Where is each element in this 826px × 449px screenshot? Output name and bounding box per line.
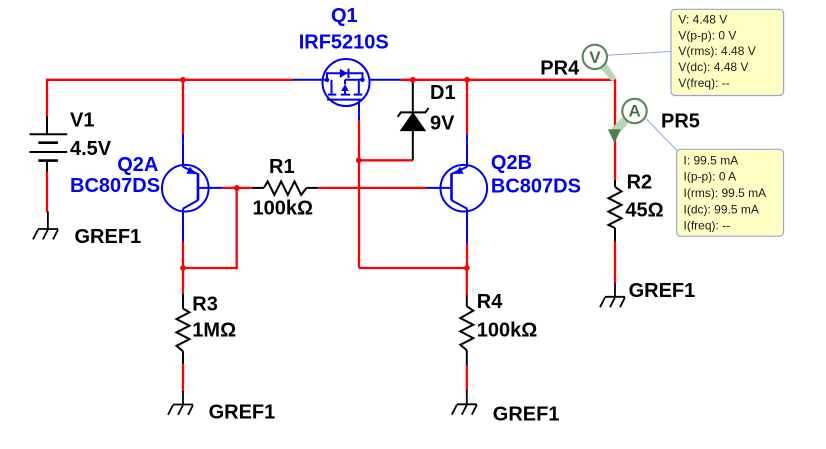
svg-text:R2: R2 (627, 172, 653, 194)
svg-text:IRF5210S: IRF5210S (299, 31, 389, 53)
wire base-collector loop of Q2A (183, 188, 237, 268)
wire Q2A base to R1 (222, 187, 252, 189)
wire R3 bottom (182, 364, 184, 392)
resistor R4 (460, 295, 473, 365)
svg-text:I(dc): 99.5 mA: I(dc): 99.5 mA (684, 202, 759, 216)
svg-text:I(p-p): 0 A: I(p-p): 0 A (684, 170, 737, 184)
svg-text:100kΩ: 100kΩ (477, 319, 538, 341)
wire gate node to R4 junction (359, 267, 467, 269)
svg-text:I(freq): --: I(freq): -- (684, 219, 731, 233)
svg-text:Q2A: Q2A (117, 154, 158, 176)
resistor R1 (252, 181, 317, 195)
battery V1 (30, 117, 68, 172)
svg-text:Q1: Q1 (331, 5, 358, 27)
svg-text:4.5V: 4.5V (70, 138, 112, 160)
wire R3 top (182, 268, 184, 294)
wire R4 bottom (466, 365, 468, 390)
svg-text:V(freq): --: V(freq): -- (678, 76, 729, 90)
wire Q2B emitter drop (466, 80, 468, 135)
wire R1 right to Q2B base (317, 187, 426, 189)
junction Q2A base / R1 / feedback loop (234, 185, 240, 191)
svg-text:V1: V1 (70, 110, 94, 132)
wire R2 bottom (614, 242, 616, 283)
transistor Q2B (427, 134, 488, 244)
resistor R2 (609, 180, 622, 242)
probe PR5 arrowhead (608, 129, 621, 143)
wire top rail left segment (47, 80, 293, 118)
svg-text:GREF1: GREF1 (493, 403, 560, 425)
svg-text:GREF1: GREF1 (629, 280, 696, 302)
wire gate dot to D1 anode (359, 159, 413, 161)
junction Q2B collector / gate wire / R4 (464, 265, 470, 271)
wire R4 top (466, 268, 468, 295)
svg-text:BC807DS: BC807DS (491, 175, 581, 197)
svg-text:PR4: PR4 (540, 57, 580, 79)
svg-text:R1: R1 (269, 156, 295, 178)
probe PR5 arrow swoosh (612, 118, 630, 134)
svg-text:V: V (589, 48, 601, 67)
wire V1 bottom (46, 170, 48, 212)
svg-text:R4: R4 (477, 291, 503, 313)
probe PR5 leader line (646, 119, 677, 151)
ground GREF1 under R3 (168, 391, 193, 415)
junction Q2A collector / loop / R3 (180, 265, 186, 271)
svg-text:9V: 9V (430, 113, 455, 135)
ground GREF1 under R4 (452, 390, 477, 415)
measurement box PR4 (671, 9, 784, 95)
svg-text:V: 4.48 V: V: 4.48 V (678, 12, 727, 26)
junction rail / Q2A emitter (180, 77, 186, 83)
svg-text:R3: R3 (192, 293, 218, 315)
junction rail / Q2B emitter (464, 77, 470, 83)
svg-text:A: A (629, 102, 641, 121)
probe PR4 leader line (607, 52, 671, 56)
svg-text:I(rms): 99.5 mA: I(rms): 99.5 mA (684, 186, 767, 200)
ground GREF1 under V1 (33, 212, 58, 240)
svg-text:V(p-p): 0 V: V(p-p): 0 V (678, 28, 736, 42)
svg-text:BC807DS: BC807DS (70, 175, 160, 197)
svg-text:1MΩ: 1MΩ (192, 320, 236, 342)
probe PR5 circle A (622, 99, 646, 123)
zener diode D1 (398, 81, 429, 161)
mosfet Q1 (293, 59, 401, 121)
probe PR4 circle V (583, 45, 607, 69)
resistor R3 (177, 294, 190, 364)
svg-text:100kΩ: 100kΩ (253, 198, 314, 220)
wire gate node vertical (358, 121, 360, 268)
svg-text:I: 99.5 mA: I: 99.5 mA (684, 153, 739, 167)
svg-text:GREF1: GREF1 (75, 226, 142, 248)
probe PR4 arrow swoosh (598, 61, 617, 82)
svg-text:V(rms): 4.48 V: V(rms): 4.48 V (678, 44, 755, 58)
svg-text:GREF1: GREF1 (209, 401, 276, 423)
transistor Q2A (162, 134, 222, 242)
svg-text:PR5: PR5 (661, 111, 700, 133)
svg-text:45Ω: 45Ω (625, 199, 663, 221)
junction gate node / D1 anode (356, 157, 362, 163)
svg-text:V(dc): 4.48 V: V(dc): 4.48 V (678, 60, 748, 74)
wire Q2A emitter drop (182, 80, 184, 134)
wire Q2A collector drop (182, 242, 184, 268)
wire top rail right segment (401, 80, 616, 180)
wire Q2B collector drop (466, 244, 468, 268)
measurement box PR5 (677, 149, 784, 236)
junction rail / D1 cathode (410, 77, 416, 83)
ground GREF1 under R2 (600, 283, 625, 307)
svg-text:Q2B: Q2B (491, 152, 532, 174)
svg-text:D1: D1 (430, 82, 456, 104)
